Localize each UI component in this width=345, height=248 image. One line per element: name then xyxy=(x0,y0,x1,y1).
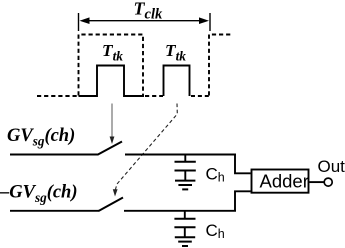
wire: input 1 left segment xyxy=(10,154,98,156)
label T_tk (pulse 1) xyxy=(102,41,123,64)
pulse 2 (solid waveform) xyxy=(164,66,190,97)
dashed clock envelope period 1 xyxy=(79,35,144,96)
wire: input 2 right segment to bus xyxy=(124,210,236,212)
wire: adder output xyxy=(310,181,325,183)
ground (bottom capacitor) xyxy=(175,237,195,246)
node label GV_sg(ch) xyxy=(7,126,75,149)
dashed clock envelope period 2 xyxy=(209,35,231,96)
dashed baseline segment between pulses xyxy=(145,95,163,97)
wire: bottom input riser into adder xyxy=(235,191,251,211)
switch 2 blade xyxy=(99,198,124,212)
label T_clk xyxy=(134,0,164,23)
value label C_h (bottom) xyxy=(206,221,225,241)
control arrow from pulse 1 to switch 1 xyxy=(110,104,115,145)
pulse 1 (solid waveform) xyxy=(79,66,145,97)
node label -GV_sg(ch) xyxy=(0,183,78,206)
tick left of T_clk measure xyxy=(78,13,80,31)
capacitor C_h (top): plates xyxy=(175,162,196,180)
dashed baseline segment left xyxy=(37,95,78,97)
ground (top capacitor) xyxy=(175,181,195,190)
dimension arrow T_clk (double-headed) xyxy=(80,17,210,24)
adder block xyxy=(252,170,309,193)
wire: input 1 right segment to bus xyxy=(125,154,236,156)
wire: top input riser into adder xyxy=(235,155,251,174)
capacitor C_h (top): stub xyxy=(184,155,186,162)
value label C_h (top) xyxy=(206,164,225,184)
node label Out xyxy=(318,157,345,176)
dashed baseline segment right xyxy=(191,95,209,97)
capacitor C_h (bottom): stub xyxy=(184,211,186,219)
svg-text:Out: Out xyxy=(318,157,345,176)
wire: input 2 left segment xyxy=(10,210,99,212)
tick right of T_clk measure xyxy=(209,13,211,31)
switch 1 blade xyxy=(98,142,123,155)
label T_tk (pulse 2) xyxy=(165,41,186,64)
output terminal circle xyxy=(324,178,332,186)
dashed control arrow from pulse 2 to switch 2 xyxy=(113,104,178,197)
svg-text:Adder: Adder xyxy=(260,170,309,191)
capacitor C_h (bottom): plates xyxy=(174,219,195,237)
